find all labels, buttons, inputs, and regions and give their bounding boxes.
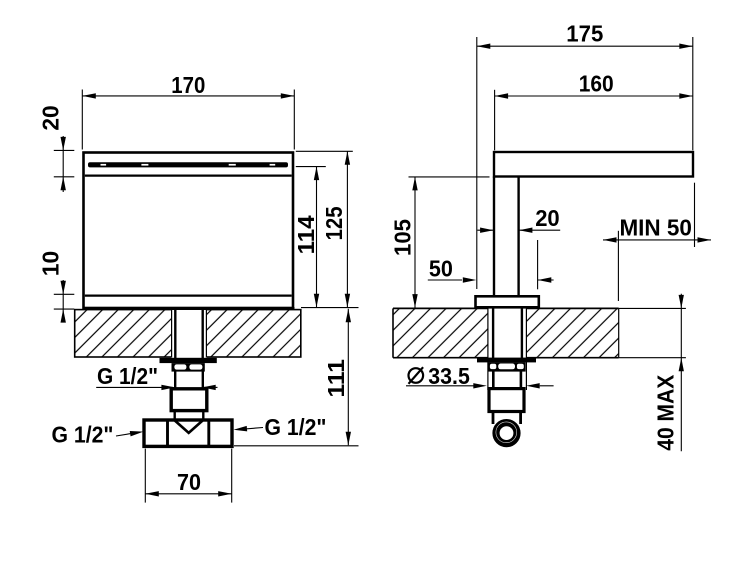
dimension 105 (left of column): [389, 177, 489, 308]
hose stub (right): [493, 412, 521, 425]
dimension 20 (column width): [477, 205, 560, 233]
body bottom inner line (left): [85, 294, 292, 296]
deck hatched section (right view): [393, 308, 619, 359]
backnut (left): [172, 363, 205, 372]
label G 1/2 (tee right port): [233, 414, 326, 440]
label G 1/2 (tee left port): [52, 421, 144, 447]
backnut (right): [488, 362, 526, 371]
valve block (left): [171, 389, 207, 411]
dimension 160 (right view): [495, 71, 693, 151]
aerator slot (left): [88, 162, 288, 167]
label G 1/2 (shank, left view): [96, 363, 217, 390]
dimension 170 (left top): [82, 72, 294, 150]
svg-text:50: 50: [429, 256, 453, 282]
washer under deck (left): [160, 358, 217, 363]
faucet body rectangle (left): [84, 153, 294, 309]
svg-text:170: 170: [171, 72, 205, 98]
body band line (left): [85, 175, 292, 177]
deck top extension line (left view, to the right): [301, 307, 359, 309]
deck hatched section (left view): [75, 308, 301, 358]
svg-text:G 1/2": G 1/2": [52, 421, 114, 447]
svg-text:70: 70: [177, 469, 201, 495]
svg-text:125: 125: [321, 206, 347, 240]
svg-text:111: 111: [323, 359, 349, 398]
dimension 70 (below tee): [145, 449, 231, 503]
dimension 40 MAX (deck thickness): [653, 294, 684, 452]
hose elbow ring (right): [496, 422, 517, 444]
column (right view): [494, 177, 519, 297]
deck extension lines to 40 MAX dim: [619, 308, 686, 357]
svg-text:G 1/2": G 1/2": [97, 363, 158, 389]
svg-text:160: 160: [579, 71, 614, 97]
tee bottom extension line: [234, 445, 359, 447]
dimension dia 33.5 (hole): [406, 363, 554, 389]
hole edge lines / dia 33.5 extension lines (right): [488, 308, 527, 390]
dimension 50 (flange width): [428, 240, 554, 289]
dimension 125 (right of body): [296, 151, 353, 307]
svg-text:G 1/2": G 1/2": [265, 414, 327, 440]
svg-text:40 MAX: 40 MAX: [653, 374, 679, 451]
inlet tube below nut (right): [492, 371, 522, 389]
collar between block and tee (left): [175, 411, 204, 421]
dimension 111 (below deck, right): [323, 309, 351, 446]
valve block (right): [489, 389, 524, 412]
threaded shank through deck (left): [175, 308, 202, 358]
spout arm (right view): [494, 152, 693, 177]
dimension 20 (left side top): [38, 105, 75, 192]
washer under deck (right): [477, 358, 536, 363]
svg-text:175: 175: [566, 21, 603, 47]
tee fitting (left): [144, 420, 232, 446]
svg-text:20: 20: [535, 205, 560, 231]
svg-text:33.5: 33.5: [428, 363, 470, 389]
svg-text:105: 105: [389, 219, 415, 256]
dimension 114 (right of body): [293, 167, 326, 308]
hole edge lines through deck (left): [172, 309, 207, 357]
dimension 175 (right view top): [477, 21, 693, 289]
dimension 10 (left side bottom): [37, 251, 74, 323]
base flange (right view): [476, 296, 539, 307]
svg-text:10: 10: [37, 251, 63, 276]
svg-text:20: 20: [38, 105, 64, 130]
inlet tube below nut (left): [174, 371, 204, 389]
dimension MIN 50: [603, 183, 711, 301]
svg-text:MIN 50: MIN 50: [619, 215, 692, 241]
threaded shank through deck (right): [493, 307, 522, 358]
svg-text:114: 114: [293, 215, 319, 254]
